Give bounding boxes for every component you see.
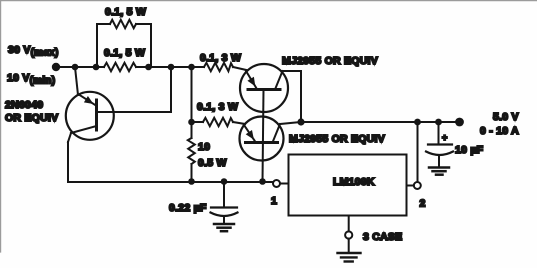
transistor Q3 MJ2955 (lower) — [240, 117, 302, 161]
node lower branch junctions — [188, 119, 195, 126]
capacitor C2 10uF — [426, 122, 453, 167]
svg-text:0.22 µF: 0.22 µF — [169, 202, 207, 214]
svg-text:MJ2955 OR EQUIV: MJ2955 OR EQUIV — [289, 133, 385, 145]
ground for C1 — [214, 224, 234, 231]
svg-text:0.1, 3 W: 0.1, 3 W — [197, 101, 238, 113]
wire Q1 collector down to rail — [67, 142, 69, 182]
svg-text:5.0 V: 5.0 V — [493, 111, 519, 123]
capacitor C1 0.22uF — [211, 182, 238, 224]
pin 3 terminal — [348, 216, 350, 232]
wire Q2 collector to lower line — [283, 71, 302, 122]
svg-text:10 V(min): 10 V(min) — [7, 72, 55, 87]
svg-text:0 - 10 A: 0 - 10 A — [480, 125, 519, 137]
node output terminal — [455, 118, 464, 127]
ground for C2 — [429, 168, 449, 175]
wire Q1 base to main line — [97, 67, 172, 112]
svg-text:30 V(max): 30 V(max) — [8, 44, 59, 59]
wire main input line — [56, 66, 104, 68]
node input terminal — [52, 63, 60, 71]
svg-text:10: 10 — [198, 141, 210, 153]
svg-text:0.1, 5 W: 0.1, 5 W — [105, 6, 146, 18]
svg-text:2N6049: 2N6049 — [5, 99, 43, 111]
wire pin2 vertical — [417, 122, 419, 182]
pin 2 terminal — [414, 182, 421, 189]
wire Q2/Q3 base vertical — [263, 90, 264, 183]
svg-text:0.1, 3 W: 0.1, 3 W — [200, 52, 241, 64]
Q3 emitter arrow — [246, 130, 254, 140]
resistor R4 0.1 3W (lower) — [192, 118, 246, 126]
svg-text:1: 1 — [271, 195, 277, 207]
wire branch vertical to lower line — [191, 67, 193, 122]
transistor Q1 2N6049 — [66, 67, 114, 142]
svg-text:MJ2955 OR EQUIV: MJ2955 OR EQUIV — [282, 55, 378, 67]
Q2 emitter arrow — [247, 77, 255, 87]
resistor R5 10 0.5W — [188, 122, 195, 182]
svg-text:0.5 W: 0.5 W — [198, 157, 227, 169]
wire into Q2 emitter — [233, 67, 247, 70]
transistor Q2 MJ2955 (upper) — [240, 64, 288, 112]
resistor R1 0.1 5W (top of parallel pair) — [97, 20, 151, 67]
svg-text:OR EQUIV: OR EQUIV — [5, 112, 58, 124]
svg-text:2: 2 — [420, 198, 426, 210]
node main line junctions — [72, 64, 79, 71]
svg-text:0.1, 5 W: 0.1, 5 W — [104, 47, 145, 59]
pin 1 terminal — [273, 180, 280, 187]
Q1 emitter arrow — [84, 96, 94, 104]
svg-text:+: + — [442, 133, 448, 143]
node output line junctions — [414, 119, 421, 126]
wire output line — [301, 121, 460, 123]
op-amp U1 LM109K box — [289, 155, 407, 216]
svg-text:LM109K: LM109K — [333, 176, 375, 188]
resistor R2 0.1 5W (on main line) — [104, 63, 136, 71]
node rail junctions — [188, 178, 195, 185]
svg-text:10 µF: 10 µF — [455, 144, 484, 156]
wire bottom rail — [68, 181, 273, 183]
resistor R3 0.1 3W (upper) — [204, 63, 233, 71]
svg-text:3 CASE: 3 CASE — [363, 231, 402, 243]
ground for pin 3 — [338, 253, 361, 262]
